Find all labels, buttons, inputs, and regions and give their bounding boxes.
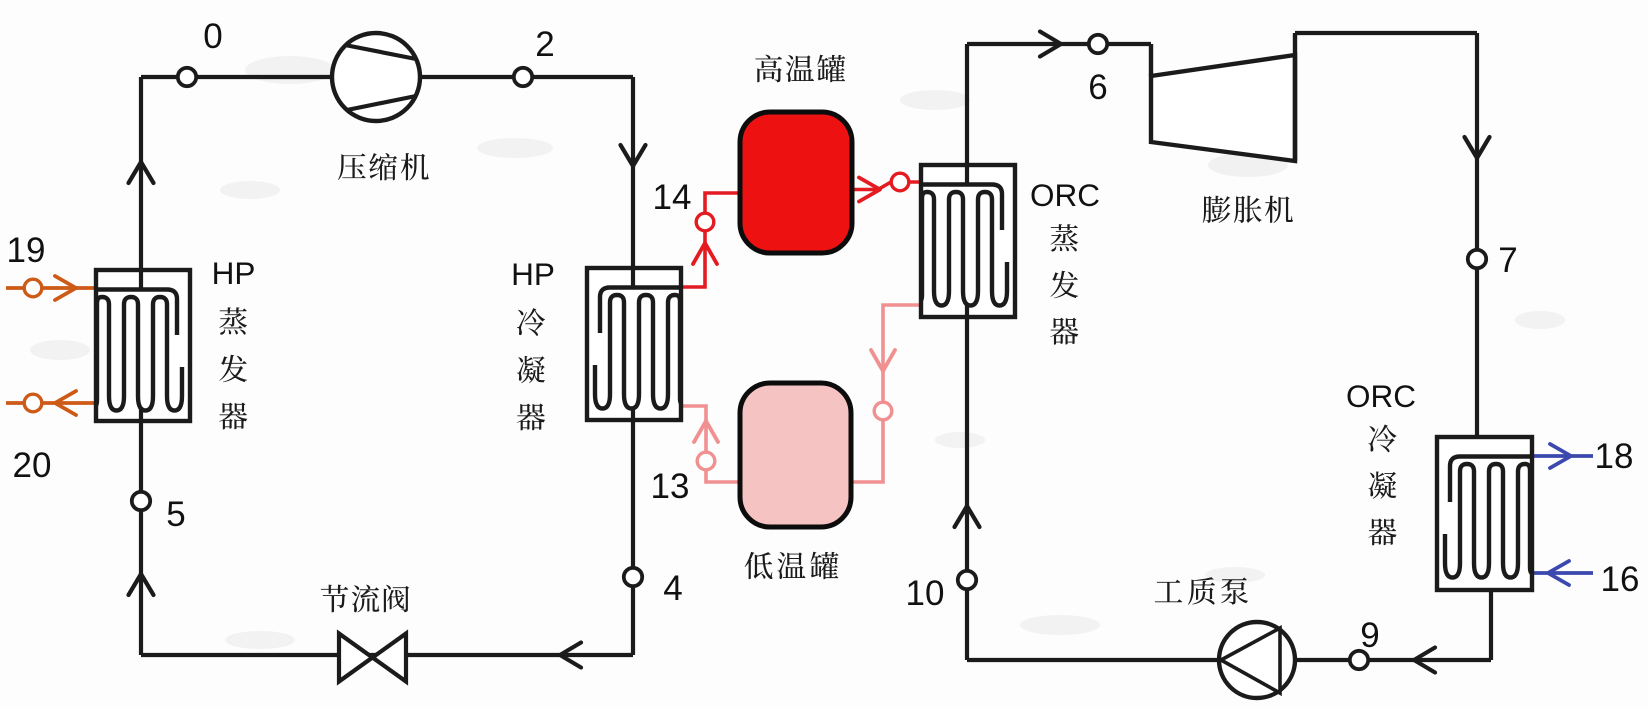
arrow up into HP evaporator bbox=[129, 162, 154, 183]
svg-text:19: 19 bbox=[7, 231, 46, 270]
svg-text:ORC: ORC bbox=[1030, 177, 1100, 213]
arrow left to throttle valve bbox=[560, 643, 581, 668]
node 4 bbox=[624, 568, 642, 586]
label node 7 bbox=[1498, 241, 1517, 280]
node 10 bbox=[958, 571, 976, 589]
label compressor bbox=[338, 153, 429, 180]
label HP evaporator bbox=[212, 255, 256, 429]
label expander bbox=[1203, 196, 1293, 223]
svg-text:4: 4 bbox=[663, 569, 682, 608]
wire expander outlet top bbox=[1295, 31, 1477, 35]
label throttle valve bbox=[321, 585, 409, 613]
wire heat source outlet 20 bbox=[6, 401, 96, 405]
svg-text:ORC: ORC bbox=[1346, 378, 1416, 414]
label node 10 bbox=[906, 574, 945, 613]
label working fluid pump bbox=[1155, 577, 1248, 605]
wire cooling water outlet 18 bbox=[1532, 454, 1593, 458]
expander (turbine) bbox=[1151, 33, 1295, 161]
label node 2 bbox=[535, 25, 554, 64]
label cold tank bbox=[745, 552, 839, 579]
cold storage tank bbox=[740, 383, 851, 527]
svg-text:HP: HP bbox=[212, 255, 256, 291]
label hot tank bbox=[755, 55, 845, 83]
arrow left into ORC condenser (16) bbox=[1548, 561, 1569, 585]
svg-text:14: 14 bbox=[653, 178, 692, 217]
node 5 bbox=[132, 492, 150, 510]
svg-text:18: 18 bbox=[1595, 437, 1634, 476]
wire cooling water inlet 16 bbox=[1532, 571, 1593, 575]
arrow left out of HP evaporator (20) bbox=[55, 391, 76, 415]
HP evaporator heat exchanger bbox=[95, 270, 190, 421]
HP condenser heat exchanger bbox=[587, 268, 682, 420]
node 19 bbox=[24, 279, 42, 297]
wire hot oil: HP condenser to hot tank (node 14) bbox=[681, 193, 742, 287]
compressor bbox=[332, 33, 420, 121]
label node 18 bbox=[1595, 437, 1634, 476]
wire HP loop left vertical bbox=[139, 77, 143, 655]
arrow up to node 5 bbox=[129, 574, 154, 595]
svg-text:6: 6 bbox=[1088, 68, 1107, 107]
arrow right into HP evaporator (19) bbox=[55, 276, 76, 300]
arrow up to node 14 bbox=[693, 243, 717, 264]
throttle valve bbox=[339, 634, 406, 682]
ORC condenser heat exchanger bbox=[1437, 437, 1532, 590]
svg-text:20: 20 bbox=[13, 446, 52, 485]
svg-text:16: 16 bbox=[1601, 560, 1640, 599]
wire ORC loop bottom (pump line) bbox=[967, 658, 1491, 662]
label node 19 bbox=[7, 231, 46, 270]
label node 16 bbox=[1601, 560, 1640, 599]
wire heat source inlet 19 bbox=[6, 286, 96, 290]
wire cold oil: node 13 to HP condenser bbox=[681, 406, 742, 482]
svg-text:10: 10 bbox=[906, 574, 945, 613]
wire ORC evaporator vertical bbox=[965, 44, 969, 660]
label node 6 bbox=[1088, 68, 1107, 107]
wire hot oil: hot tank to ORC evaporator bbox=[850, 182, 921, 190]
arrow up into ORC evaporator bbox=[955, 506, 980, 527]
hot storage tank bbox=[740, 112, 852, 253]
working fluid pump bbox=[1219, 622, 1295, 698]
node 2 bbox=[514, 68, 532, 86]
ORC evaporator heat exchanger bbox=[920, 165, 1015, 317]
arrow down into HP condenser bbox=[621, 145, 646, 166]
node 20 bbox=[24, 394, 42, 412]
svg-text:2: 2 bbox=[535, 25, 554, 64]
arrow right out of ORC condenser (18) bbox=[1550, 444, 1571, 468]
wire cold oil: ORC evaporator to cold tank bbox=[850, 305, 921, 482]
node 13 bbox=[697, 452, 715, 470]
svg-text:13: 13 bbox=[651, 467, 690, 506]
svg-text:9: 9 bbox=[1360, 616, 1379, 655]
node hot tank outlet bbox=[891, 173, 909, 191]
wire ORC condenser outlet vertical bbox=[1489, 590, 1493, 660]
svg-text:HP: HP bbox=[511, 256, 555, 292]
node 14 bbox=[696, 213, 714, 231]
arrow down to node 7 bbox=[1465, 137, 1490, 158]
paper texture smudges bbox=[30, 56, 1565, 649]
node cold oil return bbox=[874, 402, 892, 420]
label ORC evaporator bbox=[1030, 177, 1100, 345]
wire HP loop top (0-compressor-2) bbox=[141, 75, 633, 79]
label node 4 bbox=[663, 569, 682, 608]
wire ORC loop top (6-expander) bbox=[967, 42, 1151, 46]
label node 13 bbox=[651, 467, 690, 506]
arrow left to node 9 bbox=[1414, 648, 1435, 673]
label node 5 bbox=[166, 495, 185, 534]
svg-text:0: 0 bbox=[203, 17, 222, 56]
wire HP loop bottom (throttle line) bbox=[141, 653, 633, 657]
label ORC condenser bbox=[1346, 378, 1416, 545]
label node 14 bbox=[653, 178, 692, 217]
node 6 bbox=[1089, 35, 1107, 53]
svg-text:5: 5 bbox=[166, 495, 185, 534]
node 7 bbox=[1468, 250, 1486, 268]
arrow right from hot tank bbox=[859, 178, 880, 202]
label node 20 bbox=[13, 446, 52, 485]
label node 0 bbox=[203, 17, 222, 56]
svg-text:7: 7 bbox=[1498, 241, 1517, 280]
wire HP loop right vertical (condenser line) bbox=[631, 77, 635, 655]
node 0 bbox=[178, 68, 196, 86]
node 9 bbox=[1350, 651, 1368, 669]
wire ORC loop right vertical bbox=[1475, 33, 1479, 437]
arrow up to HP condenser (cold oil) bbox=[694, 421, 718, 442]
label node 9 bbox=[1360, 616, 1379, 655]
arrow right to node 6 bbox=[1040, 32, 1061, 57]
label HP condenser bbox=[511, 256, 555, 430]
arrow down from ORC evaporator (cold oil) bbox=[871, 350, 895, 371]
